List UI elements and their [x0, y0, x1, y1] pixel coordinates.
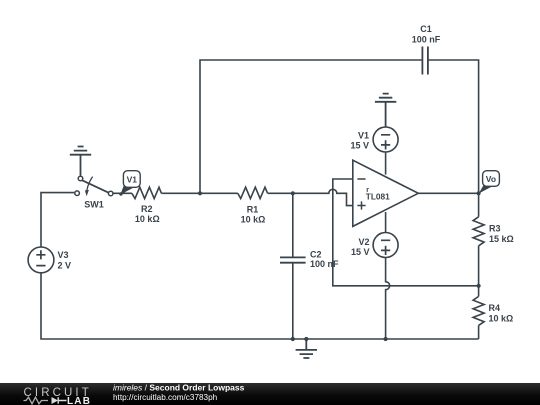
node C2 bottom junction — [291, 337, 295, 341]
source V2 supply circle — [373, 233, 398, 258]
wire top loop left vertical and top horizontal to C1 — [200, 60, 422, 193]
wire minus input feedback path — [333, 179, 479, 286]
svg-text:C2: C2 — [310, 250, 322, 260]
node Vo junction — [477, 191, 481, 195]
logo diode glyph — [52, 397, 59, 404]
svg-text:15 V: 15 V — [351, 247, 370, 257]
wire R3 leads — [478, 193, 480, 285]
junction dots — [198, 191, 481, 341]
capacitor C1 — [422, 47, 428, 75]
op-amp minus sign — [357, 178, 365, 180]
svg-text:100 nF: 100 nF — [412, 35, 441, 45]
flag Vo — [479, 171, 500, 194]
op-amp U1 triangle — [353, 160, 419, 226]
switch SW1 terminals — [75, 176, 113, 196]
svg-text:10 kΩ: 10 kΩ — [135, 214, 160, 224]
svg-text:R1: R1 — [247, 205, 259, 215]
svg-text:15 kΩ: 15 kΩ — [489, 234, 514, 244]
logo resistor glyph — [24, 397, 49, 404]
ground G1 above switch — [70, 147, 91, 176]
ground G2 above V1 supply — [375, 94, 396, 127]
switch SW1 blade — [82, 180, 109, 193]
node V2 bottom junction — [384, 337, 388, 341]
wire R2 to R1 — [161, 192, 237, 194]
node R3/R4 feedback junction — [477, 284, 481, 288]
wire V3 top to switch — [41, 193, 74, 247]
svg-text:R3: R3 — [489, 223, 501, 233]
wire op-amp V- stub — [385, 212, 387, 233]
resistor R1 — [238, 187, 268, 198]
wire bottom rail — [41, 273, 479, 339]
resistor R2 — [132, 187, 162, 198]
wire switch to R2 — [113, 192, 131, 194]
svg-text:10 kΩ: 10 kΩ — [489, 314, 514, 324]
switch SW1 arrowhead — [85, 190, 89, 196]
wire C1 right to Vo rail — [428, 60, 479, 193]
wire V2 bottom with hop over feedback — [386, 258, 390, 340]
svg-text:V3: V3 — [58, 250, 69, 260]
svg-text:Vo: Vo — [486, 174, 496, 184]
source V1 supply circle — [373, 127, 398, 152]
svg-text:2 V: 2 V — [58, 260, 72, 270]
svg-text:TL081: TL081 — [366, 192, 390, 202]
wire C2 leads — [292, 193, 294, 339]
svg-text:R4: R4 — [489, 303, 501, 313]
node R2/R1/C1 junction — [198, 191, 202, 195]
svg-text:V1: V1 — [127, 174, 138, 184]
svg-text:V1: V1 — [358, 130, 369, 140]
node R1/C2 junction — [291, 191, 295, 195]
switch SW1 arrow — [87, 177, 93, 191]
svg-text:SW1: SW1 — [84, 200, 104, 210]
op-amp plus sign — [357, 201, 365, 209]
capacitor C2 — [280, 257, 306, 262]
node ground junction — [304, 337, 308, 341]
svg-text:imireles / Second Order Lowpas: imireles / Second Order Lowpass — [113, 383, 245, 393]
banner — [0, 383, 540, 405]
svg-text:LAB: LAB — [67, 396, 91, 405]
resistor R4 — [473, 296, 484, 325]
svg-text:100 nF: 100 nF — [310, 259, 339, 269]
svg-text:C1: C1 — [420, 24, 432, 34]
svg-text:R2: R2 — [141, 204, 153, 214]
svg-text:10 kΩ: 10 kΩ — [241, 215, 266, 225]
wire op-amp V+ stub — [385, 152, 387, 175]
wire R1 to op-amp plus input with hop — [268, 189, 353, 205]
resistor R3 — [473, 217, 484, 246]
wire R4 leads — [478, 286, 480, 339]
svg-text:http://circuitlab.com/c3783ph: http://circuitlab.com/c3783ph — [113, 393, 218, 402]
wire op-amp output to Vo node — [418, 192, 478, 194]
svg-text:15 V: 15 V — [350, 140, 369, 150]
svg-text:V2: V2 — [358, 237, 369, 247]
flag V1 — [119, 171, 140, 196]
source V3 circle — [28, 247, 54, 273]
ground G3 bottom — [296, 339, 317, 358]
